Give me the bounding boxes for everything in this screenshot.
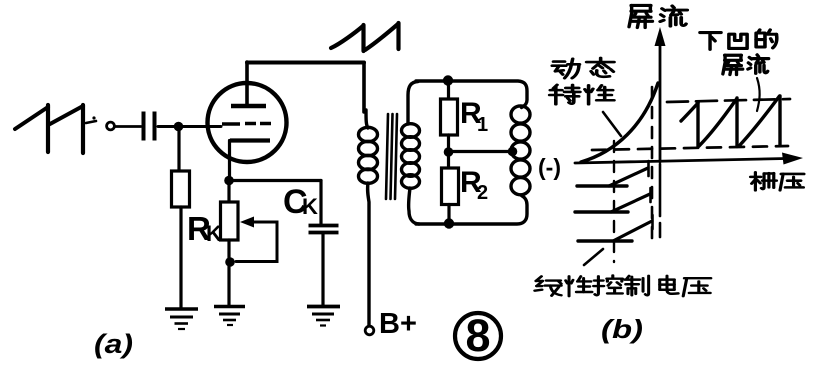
svg-text:(a): (a) [94, 329, 133, 359]
svg-text:8: 8 [465, 310, 490, 361]
svg-text:(-): (-) [538, 154, 561, 180]
svg-text:B+: B+ [379, 308, 417, 340]
svg-text:1: 1 [477, 114, 488, 136]
svg-text:(b): (b) [601, 314, 643, 344]
svg-text:2: 2 [477, 182, 488, 204]
svg-text:K: K [302, 194, 318, 219]
svg-text:K: K [206, 221, 222, 246]
